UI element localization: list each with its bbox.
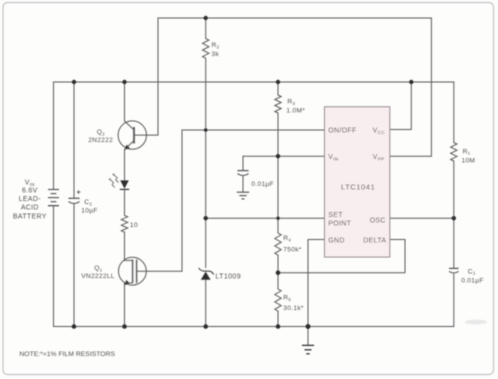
svg-text:0.01µF: 0.01µF [461, 277, 483, 284]
wire: LT1009 bottom lead [205, 280, 207, 327]
wire: Q1 gate riser [181, 130, 183, 271]
LED indicator [120, 180, 129, 188]
resistor R1 10M [451, 143, 457, 162]
svg-text:GND: GND [328, 237, 344, 244]
wire: divider chain R5 to ground rail [277, 311, 279, 327]
ground symbol at GND pin [302, 345, 314, 353]
node: LT1009 on ground rail [203, 324, 208, 329]
reference diode LT1009 [201, 272, 211, 280]
resistor 10 [121, 215, 127, 232]
svg-text:ON/OFF: ON/OFF [328, 127, 356, 134]
node: R3 top on supply rail [276, 80, 280, 84]
wire: Q1 source to bottom rail [124, 283, 126, 327]
wire: bypass cap bottom lead [242, 177, 244, 192]
wire: battery bottom lead [53, 206, 55, 327]
wire: Q2 collector lead [124, 82, 126, 121]
node: OSC / R1 [452, 216, 456, 220]
capacitor C1 0.01uF [449, 268, 459, 273]
IC U1 LTC1041 [325, 107, 390, 257]
LED light arrows [111, 175, 119, 187]
svg-text:VN2222LL: VN2222LL [81, 273, 115, 280]
ground under bypass cap [237, 192, 249, 199]
wire: OSC pin wire [390, 217, 454, 219]
battery label [13, 180, 47, 221]
node: R4-R5 junction [276, 270, 281, 275]
wire: Q2 emitter to LED [124, 150, 126, 181]
wire: VPP pin wire [390, 18, 432, 156]
resistor R3 1.0M* [275, 95, 281, 113]
node: C2 bottom on ground rail [72, 324, 77, 329]
node: VCC riser on supply rail [409, 80, 413, 84]
svg-text:6.6V: 6.6V [22, 188, 38, 195]
wire: GND pin wire [308, 240, 325, 327]
svg-text:LEAD-: LEAD- [19, 196, 41, 203]
resistor R2 3k [203, 39, 209, 59]
wire: R1 bottom lead to C1 [453, 161, 455, 268]
svg-text:SET: SET [328, 212, 343, 219]
wire: LT1009 top lead [205, 218, 207, 267]
node: set point tap on divider [276, 217, 279, 220]
wire: VIN pin wire [243, 155, 325, 157]
svg-text:10µF: 10µF [81, 207, 97, 214]
svg-text:POINT: POINT [328, 221, 351, 228]
wire: DELTA pin loop [278, 240, 405, 273]
wire: supply rail y=82 [54, 81, 454, 83]
resistor R5 30.1k* [275, 289, 281, 311]
wire: LED to resistor 10 [124, 190, 126, 216]
Q1 source arrow [125, 281, 129, 285]
svg-text:750k*: 750k* [283, 247, 301, 254]
node: ground symbol on ground rail [306, 324, 311, 329]
Q2 emitter arrow [125, 145, 129, 149]
node: R2 / ON-OFF wire [204, 128, 208, 132]
resistor R4 750k* [275, 233, 281, 255]
svg-text:BATTERY: BATTERY [13, 213, 47, 220]
node: Q1 source on ground rail [122, 324, 127, 329]
svg-text:30.1k*: 30.1k* [283, 305, 304, 312]
wire: SET POINT pin wire [206, 217, 325, 219]
svg-text:10M: 10M [462, 158, 476, 165]
wire: ground symbol stem [307, 327, 309, 345]
wire: bypass cap top lead [242, 156, 244, 170]
wire: Q1 gate horizontal [137, 270, 182, 272]
node: VIN tap on divider [276, 154, 280, 158]
wire: divider chain R3 to R4 [277, 113, 279, 233]
faint artifact smudge [465, 320, 487, 325]
svg-text:10: 10 [130, 222, 138, 229]
wire: resistor 10 to Q1 drain [124, 232, 126, 261]
svg-text:2N2222: 2N2222 [88, 137, 113, 144]
node: Q2 collector on supply rail [122, 80, 126, 84]
node: R5 bottom on ground rail [276, 324, 281, 329]
wire: VCC pin wire [390, 82, 412, 130]
wire: C2 bottom lead [73, 205, 75, 327]
node: R2 top / base net [204, 16, 208, 20]
wire: ON/OFF pin to Q1 gate riser [182, 129, 325, 131]
svg-text:NOTE:*=1% FILM RESISTORS: NOTE:*=1% FILM RESISTORS [19, 351, 115, 358]
transistor Q1 VN2222LL (MOSFET) [118, 257, 146, 285]
svg-text:0.01µF: 0.01µF [251, 181, 273, 188]
svg-text:DELTA: DELTA [363, 237, 386, 244]
svg-text:LT1009: LT1009 [215, 274, 241, 281]
svg-text:ACID: ACID [21, 204, 39, 211]
bypass capacitor 0.01uF at VIN [237, 171, 248, 176]
C2 plus sign [77, 190, 81, 194]
svg-text:1.0M*: 1.0M* [286, 108, 305, 115]
wire: R2 bottom lead down to set-point node [205, 59, 207, 219]
wire: Q2 base riser [157, 18, 159, 135]
wire: C2 top lead [73, 82, 75, 198]
wire: C1 bottom lead [453, 274, 455, 326]
capacitor C2 10uF [68, 198, 79, 203]
wire: top net (Q2 base / R2 top / VPP) [158, 17, 431, 19]
svg-text:LTC1041: LTC1041 [341, 182, 375, 191]
wire: battery top lead [53, 82, 55, 189]
svg-text:3k: 3k [212, 51, 220, 58]
wire: divider chain R3 top lead [277, 82, 279, 95]
node: set point / LT1009 [204, 216, 208, 220]
wire: ground/bottom rail [54, 326, 454, 328]
wire: R2 top lead [205, 18, 207, 39]
wire: divider chain R4 to R5 [277, 255, 279, 289]
battery VIN 6.6V lead-acid [48, 190, 59, 206]
wire: R1 top lead [453, 82, 455, 143]
svg-text:OSC: OSC [370, 218, 386, 225]
transistor Q2 2N2222 [118, 121, 157, 149]
node: C2 top on supply rail [72, 80, 76, 84]
